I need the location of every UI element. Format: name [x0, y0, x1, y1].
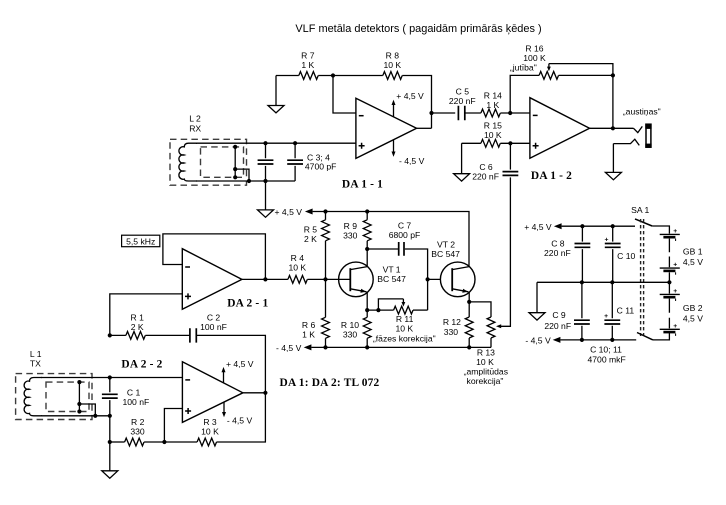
svg-text:R 9: R 9	[344, 221, 358, 231]
svg-text:100 nF: 100 nF	[200, 322, 227, 332]
svg-text:1 K: 1 K	[486, 100, 499, 110]
capacitor C3	[265, 143, 267, 181]
svg-text:+ 4,5 V: + 4,5 V	[396, 91, 424, 101]
svg-text:DA 2 - 2: DA 2 - 2	[121, 359, 162, 371]
label 5,5 kHz box	[122, 235, 160, 247]
+4.5V supply arrow DA1-1	[393, 104, 395, 117]
potentiometer R16	[539, 72, 558, 80]
svg-text:10 K: 10 K	[288, 263, 306, 273]
svg-text:330: 330	[130, 427, 145, 437]
wire / resistor R3 branch	[217, 393, 266, 442]
svg-text:+: +	[673, 288, 677, 295]
svg-text:2 K: 2 K	[131, 322, 144, 332]
jack plug body	[646, 124, 651, 147]
wire R14 to DA1-2 inverting input	[500, 112, 530, 114]
node R16/output	[611, 73, 615, 77]
svg-text:C 5: C 5	[456, 86, 470, 96]
wire base VT2	[428, 278, 453, 280]
wire DA2-2 inverting input	[110, 377, 183, 379]
svg-text:4700 pF: 4700 pF	[305, 162, 337, 172]
resistor R5	[325, 212, 327, 220]
wire emitter to R13	[469, 302, 491, 317]
svg-text:R 7: R 7	[301, 50, 315, 60]
svg-text:R 5: R 5	[304, 224, 318, 234]
node output DA1-1	[429, 111, 433, 115]
resistor R12	[468, 302, 470, 317]
wire shield tap to bottom	[235, 169, 249, 181]
svg-text:220 nF: 220 nF	[472, 171, 499, 181]
L1 shield inner dashed box	[46, 382, 89, 411]
svg-text:220 nF: 220 nF	[544, 321, 571, 331]
svg-text:R 15: R 15	[484, 120, 502, 130]
wire L1 bottom	[41, 415, 110, 417]
wire mid rail to ground	[536, 282, 538, 312]
wire +4.5V power rail	[562, 225, 635, 227]
resistor R9	[366, 212, 368, 220]
node battery midpoint	[667, 280, 671, 284]
svg-text:DA 1 - 1: DA 1 - 1	[342, 178, 383, 190]
svg-text:R 10: R 10	[341, 320, 359, 330]
svg-text:10 K: 10 K	[201, 427, 219, 437]
svg-text:„amplitūdas: „amplitūdas	[464, 367, 508, 377]
wire shield tap to bottom	[79, 404, 95, 416]
wire R7-R8	[318, 75, 383, 77]
wire DA2-1 noninverting input	[110, 294, 183, 336]
R13 wiper arrowhead	[496, 324, 501, 328]
wire to ground G6	[109, 442, 111, 471]
resistor R8	[383, 72, 402, 80]
svg-text:R 14: R 14	[484, 90, 502, 100]
capacitor C11 (electrolytic)	[611, 282, 613, 340]
svg-text:330: 330	[343, 231, 358, 241]
wire R1 to C2	[145, 334, 190, 336]
svg-text:BC 547: BC 547	[431, 249, 460, 259]
svg-text:100 K: 100 K	[523, 53, 546, 63]
-4.5V supply arrow DA1-1	[393, 140, 395, 153]
node C1 bottom / R2	[108, 440, 112, 444]
svg-text:R 6: R 6	[302, 320, 316, 330]
svg-text:VT 1: VT 1	[383, 264, 401, 274]
L2 shield outer dashed box	[170, 139, 247, 185]
node R4/R5/R6	[323, 277, 327, 281]
wire mid rail	[537, 281, 669, 283]
resistor R4	[288, 276, 307, 284]
svg-text:1 K: 1 K	[301, 60, 314, 70]
svg-text:+: +	[605, 237, 609, 244]
svg-text:330: 330	[444, 327, 459, 337]
svg-text:C 7: C 7	[398, 220, 412, 230]
svg-text:SA 1: SA 1	[631, 205, 649, 215]
wire L1 top	[41, 377, 110, 379]
battery GB2 cell 1	[660, 293, 680, 295]
wire DA2-2 output	[243, 392, 266, 394]
svg-text:„austiņas": „austiņas"	[623, 107, 661, 117]
wire between GB2 cells	[668, 299, 670, 329]
ground G2 (C3/C4)	[258, 210, 274, 217]
R11 wiper loop	[378, 299, 403, 310]
svg-text:R 12: R 12	[443, 317, 461, 327]
svg-text:BC 547: BC 547	[377, 274, 406, 284]
+4.5V supply arrow DA2-2	[223, 371, 225, 383]
svg-text:4700 mkF: 4700 mkF	[587, 354, 625, 364]
wire C7 right to VT2 base node	[405, 249, 428, 310]
transistor Q VT1	[339, 262, 374, 297]
capacitor C8	[581, 226, 583, 282]
inductor L2	[179, 143, 197, 181]
op-amp U DA1-1	[356, 98, 417, 158]
resistor R15	[481, 139, 500, 147]
svg-text:C 9: C 9	[552, 310, 566, 320]
wire DA1-1 output	[417, 127, 432, 129]
svg-text:100 nF: 100 nF	[123, 397, 150, 407]
svg-text:C 1: C 1	[127, 387, 141, 397]
svg-text:R 8: R 8	[386, 50, 400, 60]
resistor R3	[197, 438, 216, 446]
wire L2 bottom	[196, 180, 295, 182]
switch SA1 pole 1	[635, 219, 652, 226]
svg-text:+ 4,5 V: + 4,5 V	[226, 359, 254, 369]
node DA2-1 output	[263, 277, 267, 281]
svg-text:C 2: C 2	[207, 312, 221, 322]
L1 shield tap	[78, 382, 80, 411]
svg-text:- 4,5 V: - 4,5 V	[227, 416, 253, 426]
R16 wiper arrow	[548, 64, 550, 68]
svg-text:C 10: C 10	[617, 251, 635, 261]
battery GB1 cell 2	[660, 267, 680, 269]
op-amp U DA1-2	[530, 98, 590, 159]
svg-text:GB 1: GB 1	[683, 247, 703, 257]
ground G1 (left of R7)	[275, 76, 277, 106]
wire down to C6	[509, 143, 511, 169]
wire GB1 to mid rail	[668, 272, 670, 282]
capacitor C2	[190, 328, 196, 342]
svg-text:C 11: C 11	[617, 305, 635, 315]
wire R8 right to feedback vertical	[402, 76, 431, 129]
svg-text:DA 2 - 1: DA 2 - 1	[227, 298, 268, 310]
svg-text:- 4,5 V: - 4,5 V	[399, 156, 425, 166]
svg-text:L 2: L 2	[189, 114, 201, 124]
svg-text:„jutība": „jutība"	[510, 63, 537, 73]
node VT1 collector / C7	[365, 247, 369, 251]
node VT1 emitter / R10 / R11	[365, 308, 369, 312]
L2 shield inner dashed box	[201, 147, 244, 177]
ground G4 (jack)	[605, 172, 621, 179]
svg-text:DA 1: DA 2: TL 072: DA 1: DA 2: TL 072	[280, 377, 380, 389]
wire output to C5	[432, 112, 456, 114]
svg-text:+: +	[673, 323, 677, 330]
ground G3 (R15)	[461, 143, 463, 173]
wire R2 right	[144, 441, 197, 443]
svg-text:„fāzes korekcija": „fāzes korekcija"	[373, 333, 436, 343]
node inverting input DA1-2	[508, 111, 512, 115]
svg-text:+: +	[673, 228, 677, 235]
capacitor C6	[503, 172, 519, 176]
jack lower contact	[613, 139, 639, 145]
-4.5V supply arrow DA2-2	[223, 402, 225, 413]
svg-text:TX: TX	[30, 358, 41, 368]
wire feedback up to R16	[510, 75, 539, 113]
svg-text:2 K: 2 K	[304, 234, 317, 244]
svg-text:10 K: 10 K	[383, 60, 401, 70]
wire C7 left	[367, 248, 398, 250]
wire C6 down to R13 wiper	[500, 177, 510, 326]
svg-text:RX: RX	[189, 123, 201, 133]
R11 wiper arrow	[402, 299, 404, 303]
svg-text:10 K: 10 K	[395, 324, 413, 334]
svg-text:C 10; 11: C 10; 11	[590, 344, 622, 354]
svg-text:+ 4,5 V: + 4,5 V	[275, 207, 303, 217]
capacitor C5	[458, 106, 464, 120]
wire DA2-1 feedback loop	[163, 234, 266, 280]
wire -4.5V power rail	[560, 339, 636, 341]
wire +4.5V rail to VT2 collector	[313, 212, 469, 267]
wire GB2 mid to cell1	[668, 282, 670, 293]
battery GB1 cell 1	[660, 233, 680, 235]
svg-text:+ 4,5 V: + 4,5 V	[524, 222, 552, 232]
wire R7 left	[276, 75, 299, 77]
wire switch to GB2	[653, 333, 670, 340]
node R1 / C1 top	[108, 333, 112, 337]
svg-text:+: +	[673, 262, 677, 269]
wire R2 left	[110, 441, 125, 443]
node R2/R3 junction	[162, 440, 166, 444]
wire switch to GB1	[652, 226, 669, 234]
wire jack sleeve to ground	[612, 144, 614, 173]
capacitor C10 (electrolytic)	[612, 226, 614, 282]
potentiometer R13	[487, 317, 495, 338]
L1 shield outer dashed box	[16, 374, 92, 420]
svg-text:korekcija": korekcija"	[467, 376, 504, 386]
wire C2 to DA2-2 output	[196, 335, 265, 392]
svg-text:VT 2: VT 2	[437, 239, 455, 249]
wire VT1 collector	[366, 249, 368, 267]
capacitor C7	[399, 242, 404, 256]
resistor R6	[325, 279, 327, 317]
svg-text:4,5 V: 4,5 V	[683, 313, 703, 323]
wire DA1-2 output to jack	[590, 127, 634, 129]
capacitor C4	[294, 143, 296, 181]
svg-text:C 6: C 6	[479, 162, 493, 172]
node DA2-2 output	[263, 391, 267, 395]
inductor L1	[24, 378, 42, 416]
node VT2 emitter	[467, 300, 471, 304]
ground G5 (power mid)	[529, 313, 545, 320]
wire R1 left	[110, 334, 126, 336]
ground G6 (oscillator)	[102, 471, 118, 478]
wire VT2 emitter	[468, 292, 470, 302]
node VT2 base	[426, 277, 430, 281]
svg-text:R 16: R 16	[525, 43, 543, 53]
wire R15 left	[462, 142, 481, 144]
svg-text:6800 pF: 6800 pF	[389, 230, 421, 240]
wire L2 top to DA1-1 noninverting input	[196, 142, 356, 144]
switch mechanical link (dashed)	[641, 219, 644, 336]
resistor R2	[125, 438, 144, 446]
svg-text:10 K: 10 K	[476, 357, 494, 367]
wire R16 right	[559, 74, 613, 76]
svg-text:- 4,5 V: - 4,5 V	[276, 343, 302, 353]
switch SA1 pole 2	[637, 333, 653, 340]
svg-text:- 4,5 V: - 4,5 V	[525, 336, 551, 346]
svg-text:220 nF: 220 nF	[544, 248, 571, 258]
wire between GB1 cells	[668, 239, 670, 268]
svg-text:DA 1 - 2: DA 1 - 2	[531, 170, 572, 182]
wire R4 to VT1 base	[307, 278, 350, 280]
svg-text:1 K: 1 K	[302, 329, 315, 339]
svg-text:+: +	[604, 313, 608, 320]
wire C3 to ground	[265, 181, 267, 210]
svg-text:R 4: R 4	[291, 253, 305, 263]
wire inverting input DA1-1	[333, 76, 356, 114]
transistor Q VT2	[440, 262, 475, 297]
battery GB2 cell 2	[660, 328, 680, 330]
svg-text:VLF metāla detektors ( pagaidā: VLF metāla detektors ( pagaidām primārās…	[295, 23, 541, 35]
wire C5 to R14	[465, 112, 481, 114]
node noninverting input DA1-2	[508, 141, 512, 145]
wire feedback down to output	[612, 75, 614, 128]
capacitor C9	[581, 282, 583, 340]
svg-text:GB 2: GB 2	[683, 303, 703, 313]
wire DA2-1 output	[242, 278, 288, 280]
resistor R1	[126, 332, 145, 340]
resistor R10	[366, 310, 368, 317]
svg-text:R 11: R 11	[396, 314, 414, 324]
wire emitter to R11	[367, 309, 393, 311]
op-amp U DA2-1	[182, 249, 242, 310]
svg-text:5,5 kHz: 5,5 kHz	[126, 236, 155, 246]
L2 shield tap	[234, 147, 236, 177]
svg-text:4,5 V: 4,5 V	[683, 257, 703, 267]
op-amp U DA2-2	[182, 362, 243, 423]
node L1 bottom	[108, 414, 112, 418]
wire -4.5V rail	[311, 346, 491, 348]
svg-text:10 K: 10 K	[484, 130, 502, 140]
wire R16 wiper loop	[549, 64, 613, 76]
resistor R14	[481, 109, 500, 117]
wire R11 right	[413, 309, 428, 311]
wire DA2-2 noninverting input	[164, 409, 182, 443]
svg-text:C 8: C 8	[551, 238, 565, 248]
svg-text:R 1: R 1	[131, 312, 145, 322]
svg-text:220 nF: 220 nF	[449, 96, 476, 106]
svg-text:330: 330	[343, 329, 358, 339]
jack upper contact	[634, 126, 643, 132]
wire VT1 emitter	[366, 292, 368, 310]
resistor R7	[299, 72, 318, 80]
capacitor C1	[109, 378, 111, 443]
wire R15 to DA1-2 noninverting input	[500, 142, 530, 144]
node junction R7/R8	[331, 73, 335, 77]
potentiometer R11	[394, 306, 413, 314]
